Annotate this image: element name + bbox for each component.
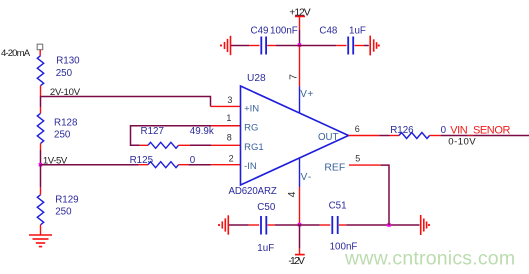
svg-text:+IN: +IN	[244, 104, 259, 115]
svg-text:7: 7	[287, 74, 299, 80]
svg-text:2: 2	[229, 154, 234, 164]
svg-text:0: 0	[190, 155, 196, 166]
svg-text:R127: R127	[141, 126, 164, 137]
svg-text:C50: C50	[257, 202, 276, 213]
svg-text:C49: C49	[251, 26, 269, 37]
svg-text:1uF: 1uF	[349, 26, 366, 37]
svg-text:R129: R129	[55, 195, 78, 206]
svg-text:3: 3	[227, 95, 232, 105]
svg-text:V+: V+	[300, 89, 313, 100]
svg-text:RG: RG	[244, 123, 258, 134]
svg-text:5: 5	[355, 153, 360, 163]
svg-text:R130: R130	[56, 56, 80, 67]
svg-text:R125: R125	[130, 155, 154, 166]
svg-text:250: 250	[54, 130, 71, 141]
svg-text:RG1: RG1	[244, 142, 264, 153]
svg-text:-IN: -IN	[244, 161, 257, 172]
svg-text:OUT: OUT	[318, 132, 339, 143]
svg-text:250: 250	[56, 68, 73, 79]
svg-text:2V-10V: 2V-10V	[50, 87, 81, 98]
svg-text:4-20mA: 4-20mA	[1, 48, 31, 59]
svg-text:www.cntronics.com: www.cntronics.com	[344, 248, 515, 270]
svg-text:8: 8	[227, 133, 232, 143]
svg-text:-12V: -12V	[288, 256, 305, 267]
svg-text:100nF: 100nF	[270, 26, 298, 37]
svg-text:C48: C48	[319, 26, 338, 37]
svg-text:AD620ARZ: AD620ARZ	[229, 186, 277, 197]
svg-text:1V-5V: 1V-5V	[43, 156, 68, 167]
svg-text:U28: U28	[247, 73, 266, 84]
svg-text:4: 4	[286, 191, 298, 197]
svg-text:1uF: 1uF	[257, 243, 274, 254]
svg-text:VIN_SENOR: VIN_SENOR	[450, 125, 510, 137]
svg-text:1: 1	[226, 113, 231, 123]
svg-text:250: 250	[55, 207, 72, 218]
svg-text:49.9k: 49.9k	[190, 126, 214, 137]
svg-text:+12V: +12V	[289, 8, 310, 19]
svg-text:C51: C51	[329, 200, 347, 211]
svg-text:R126: R126	[390, 125, 414, 136]
svg-text:R128: R128	[54, 118, 78, 129]
svg-text:V-: V-	[301, 172, 313, 183]
svg-text:6: 6	[355, 124, 360, 134]
svg-text:REF: REF	[324, 163, 345, 174]
svg-text:0-10V: 0-10V	[448, 137, 476, 148]
svg-text:0: 0	[441, 125, 447, 136]
